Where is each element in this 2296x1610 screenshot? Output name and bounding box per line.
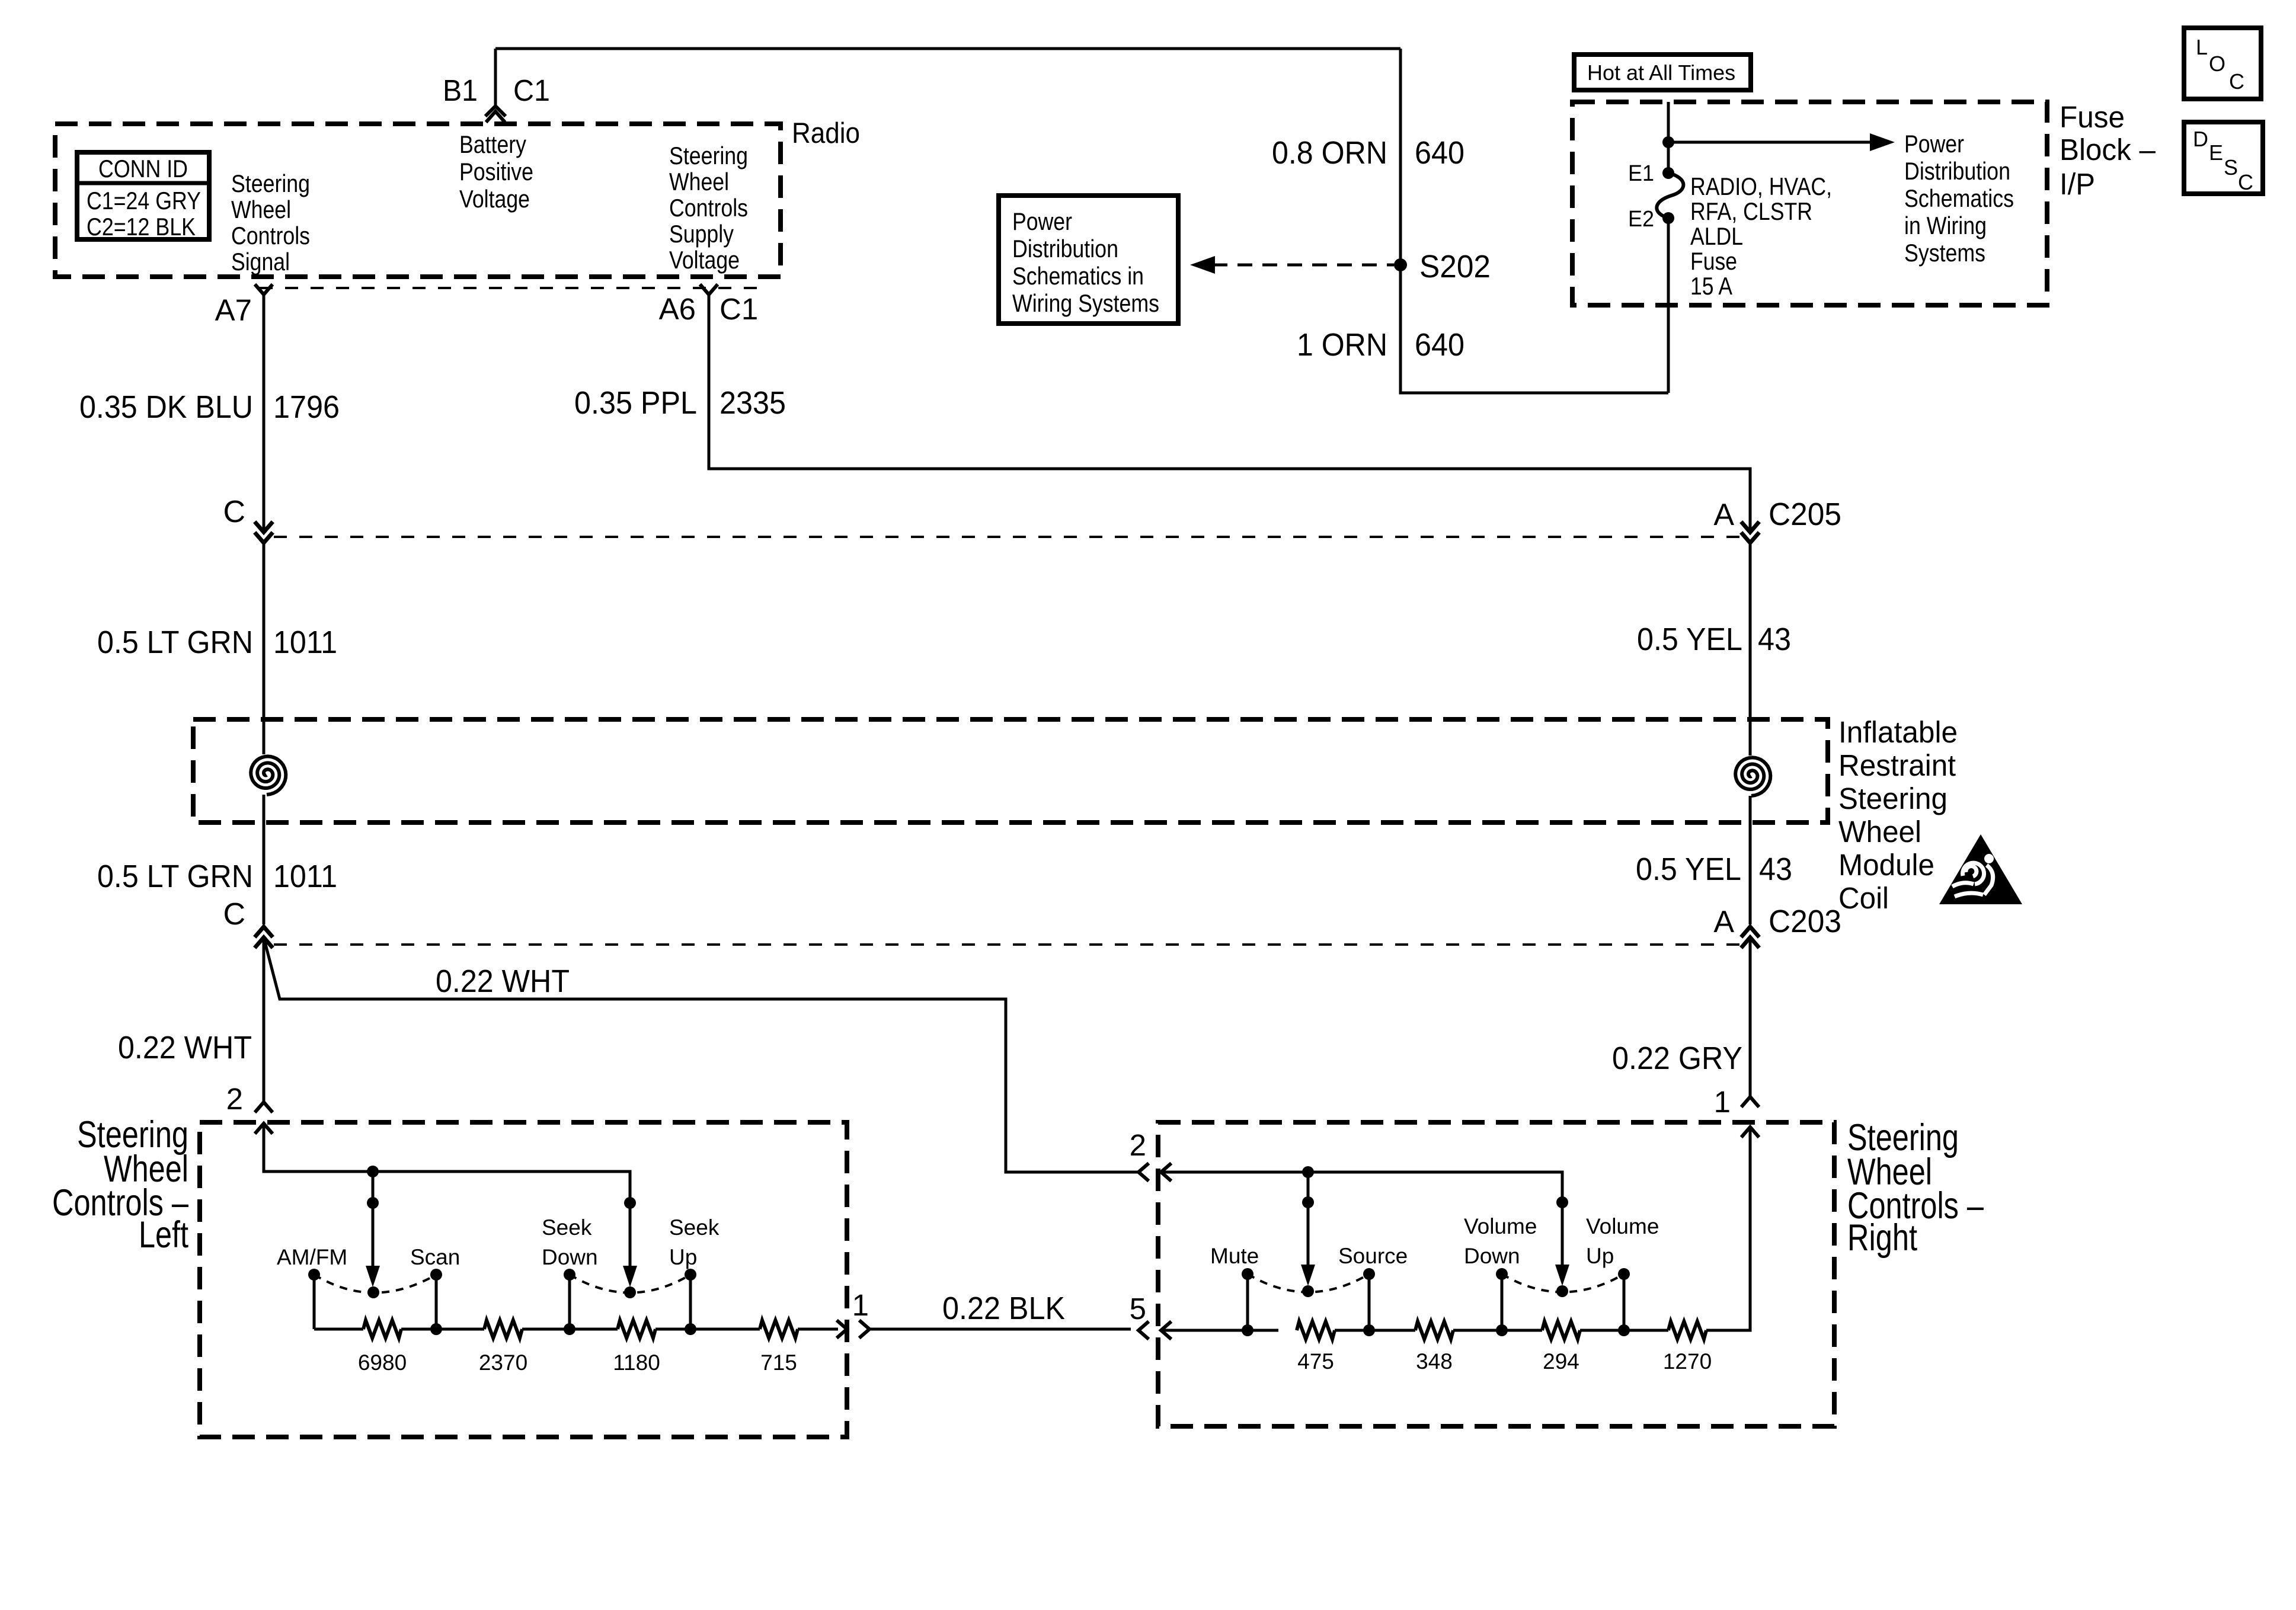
svg-text:A7: A7: [215, 293, 252, 327]
resistor 348: [1415, 1321, 1453, 1339]
svg-text:Fuse: Fuse: [2060, 100, 2125, 134]
svg-text:Signal: Signal: [231, 248, 290, 276]
svg-text:C1: C1: [720, 292, 758, 326]
svg-text:AM/FM: AM/FM: [277, 1245, 347, 1269]
connector line C203 (thin dashed): [274, 943, 1740, 946]
rocker arc 3: [1248, 1274, 1369, 1292]
pin 1 connector right box top: [1742, 1097, 1758, 1106]
svg-text:Fuse: Fuse: [1690, 247, 1737, 275]
rocker arc 1: [314, 1275, 436, 1293]
svg-text:0.22 WHT: 0.22 WHT: [436, 964, 570, 999]
resistor 1270: [1668, 1321, 1706, 1339]
fuse element E1-E2: [1662, 167, 1674, 179]
connector C1 line under radio (thin dashed): [260, 287, 762, 289]
wiper arrow 2: [629, 1203, 632, 1268]
svg-text:Up: Up: [669, 1245, 697, 1269]
svg-text:0.5 YEL: 0.5 YEL: [1637, 622, 1742, 657]
svg-text:A6: A6: [659, 292, 696, 326]
connector A / C203: [1742, 927, 1758, 936]
svg-text:1796: 1796: [273, 389, 340, 425]
svg-text:2370: 2370: [479, 1350, 527, 1375]
power distribution schematics box (left): [999, 196, 1178, 324]
connector line C205 (thin dashed): [274, 536, 1740, 538]
resistor 715: [760, 1320, 798, 1338]
wire chain to pin 1 right box: [1706, 1127, 1750, 1330]
connector A7 fork: [256, 286, 271, 295]
svg-text:C: C: [2229, 69, 2244, 94]
wire 0.5 LT GRN 1011 upper: [263, 543, 266, 754]
svg-text:Restraint: Restraint: [1838, 748, 1956, 782]
connector B1/C1 at radio top edge: [487, 106, 504, 115]
svg-text:0.5 LT GRN: 0.5 LT GRN: [97, 625, 253, 660]
svg-text:Power: Power: [1904, 130, 1964, 158]
junction dots: [367, 1166, 379, 1177]
wire below left spiral: [263, 795, 266, 924]
svg-text:0.22 BLK: 0.22 BLK: [942, 1291, 1065, 1326]
switch Volume Down contact: [1496, 1268, 1508, 1280]
svg-text:475: 475: [1297, 1349, 1334, 1374]
svg-text:Coil: Coil: [1838, 881, 1889, 915]
splice S202: [1394, 258, 1407, 271]
connector C left: [256, 523, 271, 532]
svg-text:0.22 WHT: 0.22 WHT: [118, 1030, 252, 1065]
svg-text:1011: 1011: [273, 859, 337, 894]
svg-text:in Wiring: in Wiring: [1904, 212, 1987, 239]
svg-text:1011: 1011: [273, 625, 337, 660]
resistor chain right box: [1161, 1329, 1278, 1332]
svg-text:Scan: Scan: [410, 1245, 460, 1269]
svg-text:Controls: Controls: [669, 194, 748, 222]
airbag warning triangle: [1939, 834, 2022, 904]
svg-text:43: 43: [1758, 622, 1791, 657]
wire 0.22 GRY right segment: [1749, 937, 1752, 1099]
pin 2 connector right box: [1139, 1164, 1147, 1180]
svg-text:348: 348: [1416, 1349, 1453, 1374]
svg-text:Down: Down: [1464, 1244, 1520, 1268]
svg-text:Up: Up: [1586, 1244, 1614, 1268]
svg-text:C: C: [2238, 170, 2253, 194]
svg-text:S: S: [2224, 155, 2238, 180]
resistor 294: [1542, 1321, 1580, 1339]
svg-text:Down: Down: [542, 1245, 598, 1269]
svg-text:43: 43: [1759, 852, 1792, 887]
svg-text:Wheel: Wheel: [231, 196, 291, 223]
coil spiral right: [1735, 757, 1770, 796]
svg-text:Seek: Seek: [669, 1215, 720, 1240]
svg-text:Radio: Radio: [792, 117, 860, 149]
resistor 475: [1297, 1321, 1335, 1339]
wire 0.5 YEL 43 upper: [1749, 543, 1752, 756]
svg-text:1: 1: [852, 1288, 869, 1322]
svg-text:Wheel: Wheel: [669, 168, 729, 196]
coil spiral left: [251, 756, 286, 795]
switch Source contact: [1363, 1268, 1375, 1280]
svg-text:C2=12 BLK: C2=12 BLK: [87, 213, 196, 241]
svg-text:A: A: [1713, 498, 1734, 532]
svg-text:Left: Left: [139, 1214, 188, 1256]
resistor 2370: [484, 1320, 522, 1338]
svg-text:Wheel: Wheel: [1838, 815, 1921, 849]
switch AM/FM contact: [308, 1269, 320, 1281]
svg-text:0.35 DK BLU: 0.35 DK BLU: [79, 389, 253, 425]
wiper arrow 2 right box: [1561, 1202, 1564, 1267]
svg-text:Volume: Volume: [1464, 1214, 1537, 1238]
svg-text:Voltage: Voltage: [669, 246, 740, 274]
svg-text:0.8 ORN: 0.8 ORN: [1272, 135, 1387, 171]
svg-text:C205: C205: [1769, 497, 1841, 532]
svg-text:C1=24 GRY: C1=24 GRY: [87, 187, 201, 215]
svg-text:2335: 2335: [720, 385, 786, 421]
svg-text:Right: Right: [1847, 1217, 1917, 1259]
pin 2 connector left box: [256, 1102, 271, 1111]
svg-text:D: D: [2193, 127, 2208, 151]
svg-text:E2: E2: [1628, 207, 1654, 232]
svg-text:Schematics in: Schematics in: [1012, 262, 1144, 290]
wire 0.35 PPL 2335: [709, 295, 1750, 529]
svg-text:Schematics: Schematics: [1904, 184, 2014, 212]
svg-text:Steering: Steering: [669, 142, 748, 169]
svg-text:Voltage: Voltage: [459, 185, 530, 213]
svg-text:CONN ID: CONN ID: [98, 155, 188, 183]
svg-text:Steering: Steering: [1838, 782, 1948, 815]
CONN ID table box: [77, 152, 209, 239]
wire 0.35 DK BLU 1796: [263, 295, 266, 529]
svg-text:1270: 1270: [1663, 1349, 1712, 1374]
svg-text:1 ORN: 1 ORN: [1297, 327, 1387, 363]
wiper arrow 1 right box: [1307, 1172, 1310, 1267]
svg-text:Seek: Seek: [542, 1215, 592, 1240]
svg-text:1: 1: [1714, 1085, 1731, 1119]
svg-text:715: 715: [760, 1350, 797, 1375]
svg-text:Supply: Supply: [669, 220, 734, 248]
svg-text:0.5 YEL: 0.5 YEL: [1636, 852, 1741, 887]
fuse feed wire: [1667, 102, 1670, 393]
svg-text:Steering: Steering: [231, 169, 310, 197]
svg-text:640: 640: [1415, 327, 1464, 363]
svg-text:2: 2: [226, 1082, 243, 1116]
junction dot: [1662, 136, 1674, 148]
DESC reference box: [2184, 122, 2263, 194]
svg-text:5: 5: [1130, 1292, 1146, 1326]
hot at all times banner: [1574, 55, 1751, 90]
svg-text:2: 2: [1130, 1128, 1146, 1162]
svg-text:Wiring Systems: Wiring Systems: [1012, 289, 1159, 317]
svg-text:Block –: Block –: [2060, 133, 2156, 167]
connector A6 fork: [701, 286, 717, 295]
radio device box (dashed): [55, 124, 781, 277]
switch Scan contact: [430, 1269, 442, 1281]
svg-text:I/P: I/P: [2060, 167, 2095, 201]
svg-text:Inflatable: Inflatable: [1838, 715, 1958, 749]
svg-text:RADIO, HVAC,: RADIO, HVAC,: [1690, 172, 1832, 200]
svg-text:Power: Power: [1012, 207, 1072, 235]
connector A / C205 right: [1742, 523, 1758, 532]
switch Seek Down contact: [564, 1269, 575, 1281]
svg-text:Hot at All Times: Hot at All Times: [1587, 60, 1735, 85]
svg-text:Systems: Systems: [1904, 239, 1985, 267]
svg-text:RFA, CLSTR: RFA, CLSTR: [1690, 197, 1812, 225]
pin 1 connector left box exit: [838, 1321, 847, 1337]
svg-text:S202: S202: [1419, 249, 1491, 284]
svg-text:C1: C1: [513, 73, 550, 107]
svg-text:0.35 PPL: 0.35 PPL: [574, 385, 697, 421]
svg-text:Module: Module: [1838, 848, 1934, 882]
svg-text:Controls: Controls: [231, 222, 310, 249]
inflatable restraint coil box: [193, 719, 1828, 822]
svg-text:Source: Source: [1338, 1244, 1408, 1268]
svg-text:Battery: Battery: [459, 130, 526, 158]
svg-text:Mute: Mute: [1210, 1244, 1259, 1268]
svg-text:B1: B1: [443, 73, 478, 107]
svg-text:0.5 LT GRN: 0.5 LT GRN: [97, 859, 253, 894]
svg-text:C: C: [223, 495, 245, 529]
svg-text:640: 640: [1415, 135, 1464, 171]
connector C left lower: [256, 927, 271, 936]
feed wire inside left box: [264, 1124, 630, 1203]
svg-text:0.22 GRY: 0.22 GRY: [1612, 1041, 1742, 1076]
arrow to power distribution: [1668, 141, 1870, 144]
feed wire inside right box: [1161, 1172, 1562, 1202]
switch Mute contact: [1242, 1268, 1253, 1280]
svg-text:15 A: 15 A: [1690, 272, 1732, 300]
wire 0.22 WHT branch crossover: [264, 940, 1139, 1172]
svg-text:E1: E1: [1628, 161, 1654, 186]
svg-text:Distribution: Distribution: [1904, 157, 2010, 185]
svg-text:A: A: [1713, 905, 1734, 939]
switch Volume Up contact: [1618, 1268, 1630, 1280]
svg-text:6980: 6980: [358, 1350, 407, 1375]
wire 0.22 WHT left segment: [263, 937, 266, 1102]
svg-text:Volume: Volume: [1586, 1214, 1659, 1238]
pin 5 connector right box: [1139, 1323, 1147, 1338]
dashed reference arrow from S202: [1213, 264, 1394, 267]
svg-text:C203: C203: [1769, 904, 1841, 939]
switch Seek Up contact: [685, 1269, 696, 1281]
resistor 1180: [618, 1320, 655, 1338]
svg-text:ALDL: ALDL: [1690, 222, 1743, 250]
rocker arc 2: [570, 1275, 690, 1293]
fuse block dashed box: [1572, 102, 2047, 305]
svg-text:1180: 1180: [613, 1350, 660, 1375]
svg-text:L: L: [2196, 35, 2208, 59]
wiper arrow 1: [372, 1172, 375, 1268]
steering wheel controls right box: [1158, 1122, 1834, 1426]
rocker arc 4: [1502, 1274, 1624, 1292]
svg-text:294: 294: [1543, 1349, 1579, 1374]
wire 0.8 ORN / 1 ORN trunk: [1400, 49, 1668, 393]
svg-text:Positive: Positive: [459, 158, 533, 185]
wire 0.22 BLK: [869, 1328, 1131, 1331]
resistor chain left box: [314, 1328, 363, 1331]
svg-text:C: C: [223, 897, 245, 932]
svg-text:E: E: [2209, 140, 2223, 165]
svg-text:O: O: [2209, 52, 2225, 76]
steering wheel controls left box: [200, 1122, 847, 1437]
wire: battery positive feed to radio B1: [495, 49, 1400, 105]
LOC reference box: [2184, 28, 2261, 99]
svg-text:Distribution: Distribution: [1012, 235, 1118, 263]
resistor 6980: [363, 1320, 401, 1338]
